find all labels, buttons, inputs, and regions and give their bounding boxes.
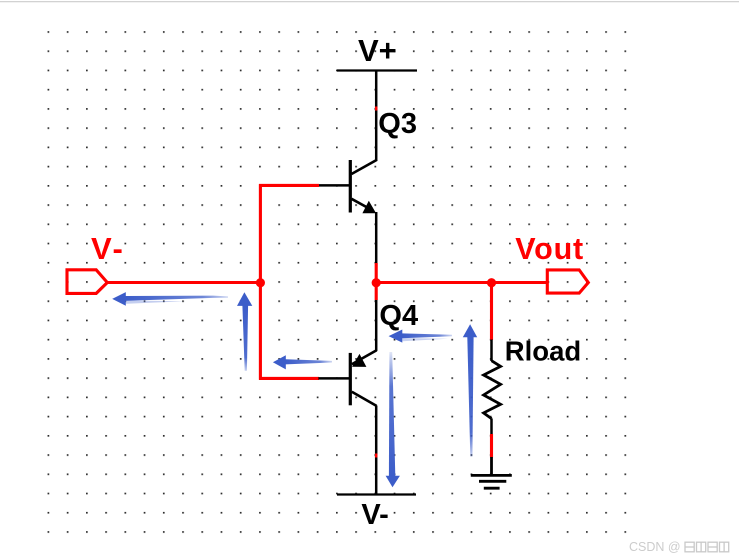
- port V-: [67, 270, 107, 294]
- transistor Q4: [318, 350, 376, 406]
- svg-text:CSDN @: CSDN @: [629, 540, 681, 554]
- transistor Q3: [318, 160, 377, 213]
- svg-text:V-: V-: [91, 231, 125, 266]
- current arrow up left branch: [237, 292, 252, 371]
- current arrow into Q4 base: [273, 355, 332, 369]
- label Q4: [379, 300, 418, 332]
- wire Rload node to Vout port: [492, 281, 548, 284]
- wire to Q3 base: [259, 184, 319, 187]
- svg-text:Q3: Q3: [378, 108, 417, 140]
- label V+: [358, 33, 397, 68]
- wire Rload node down (red): [490, 283, 493, 341]
- power rail V+: [337, 69, 417, 71]
- wire collector Q3 to V+ rail: [375, 71, 378, 162]
- wire collector Q4 down to V- rail: [375, 406, 378, 495]
- wire node A vertical branch: [259, 184, 262, 380]
- label Vout: [515, 232, 584, 266]
- current arrow up through Rload: [463, 324, 477, 456]
- wire Q4 emitter pin stub: [375, 300, 378, 351]
- wire emitter Q3 to output node (red): [375, 263, 378, 283]
- wire Rload to ground (red): [490, 434, 493, 458]
- current arrow out of V- port: [112, 292, 228, 306]
- port Vout: [547, 270, 588, 293]
- svg-text:V-: V-: [361, 499, 388, 531]
- svg-text:Vout: Vout: [515, 232, 584, 266]
- svg-text:Q4: Q4: [379, 300, 418, 332]
- current arrow down Q4 collector: [386, 352, 400, 487]
- wire output node to Q4 emitter (red): [375, 283, 378, 301]
- net color marker on Q3 collector: [375, 107, 378, 111]
- net color marker on Q4 collector: [375, 454, 378, 458]
- ground: [471, 457, 512, 488]
- wire output node to Rload node: [376, 281, 491, 284]
- wire to Q4 base: [259, 377, 319, 380]
- label V- bottom: [361, 499, 388, 531]
- junction node A: [256, 278, 265, 287]
- label Rload: [505, 336, 581, 367]
- junction Rload node: [487, 278, 496, 287]
- label Q3: [378, 108, 417, 140]
- svg-text:Rload: Rload: [505, 336, 581, 367]
- wire V- port to node A: [107, 281, 260, 284]
- power rail V- bottom: [337, 493, 416, 495]
- current arrow into Q4 emitter: [389, 330, 452, 343]
- label V-: [91, 231, 125, 266]
- wire emitter Q3 (pin stub): [375, 212, 378, 263]
- junction output node: [372, 278, 381, 287]
- svg-text:V+: V+: [358, 33, 397, 68]
- resistor Rload: [484, 340, 501, 436]
- watermark: [629, 540, 729, 554]
